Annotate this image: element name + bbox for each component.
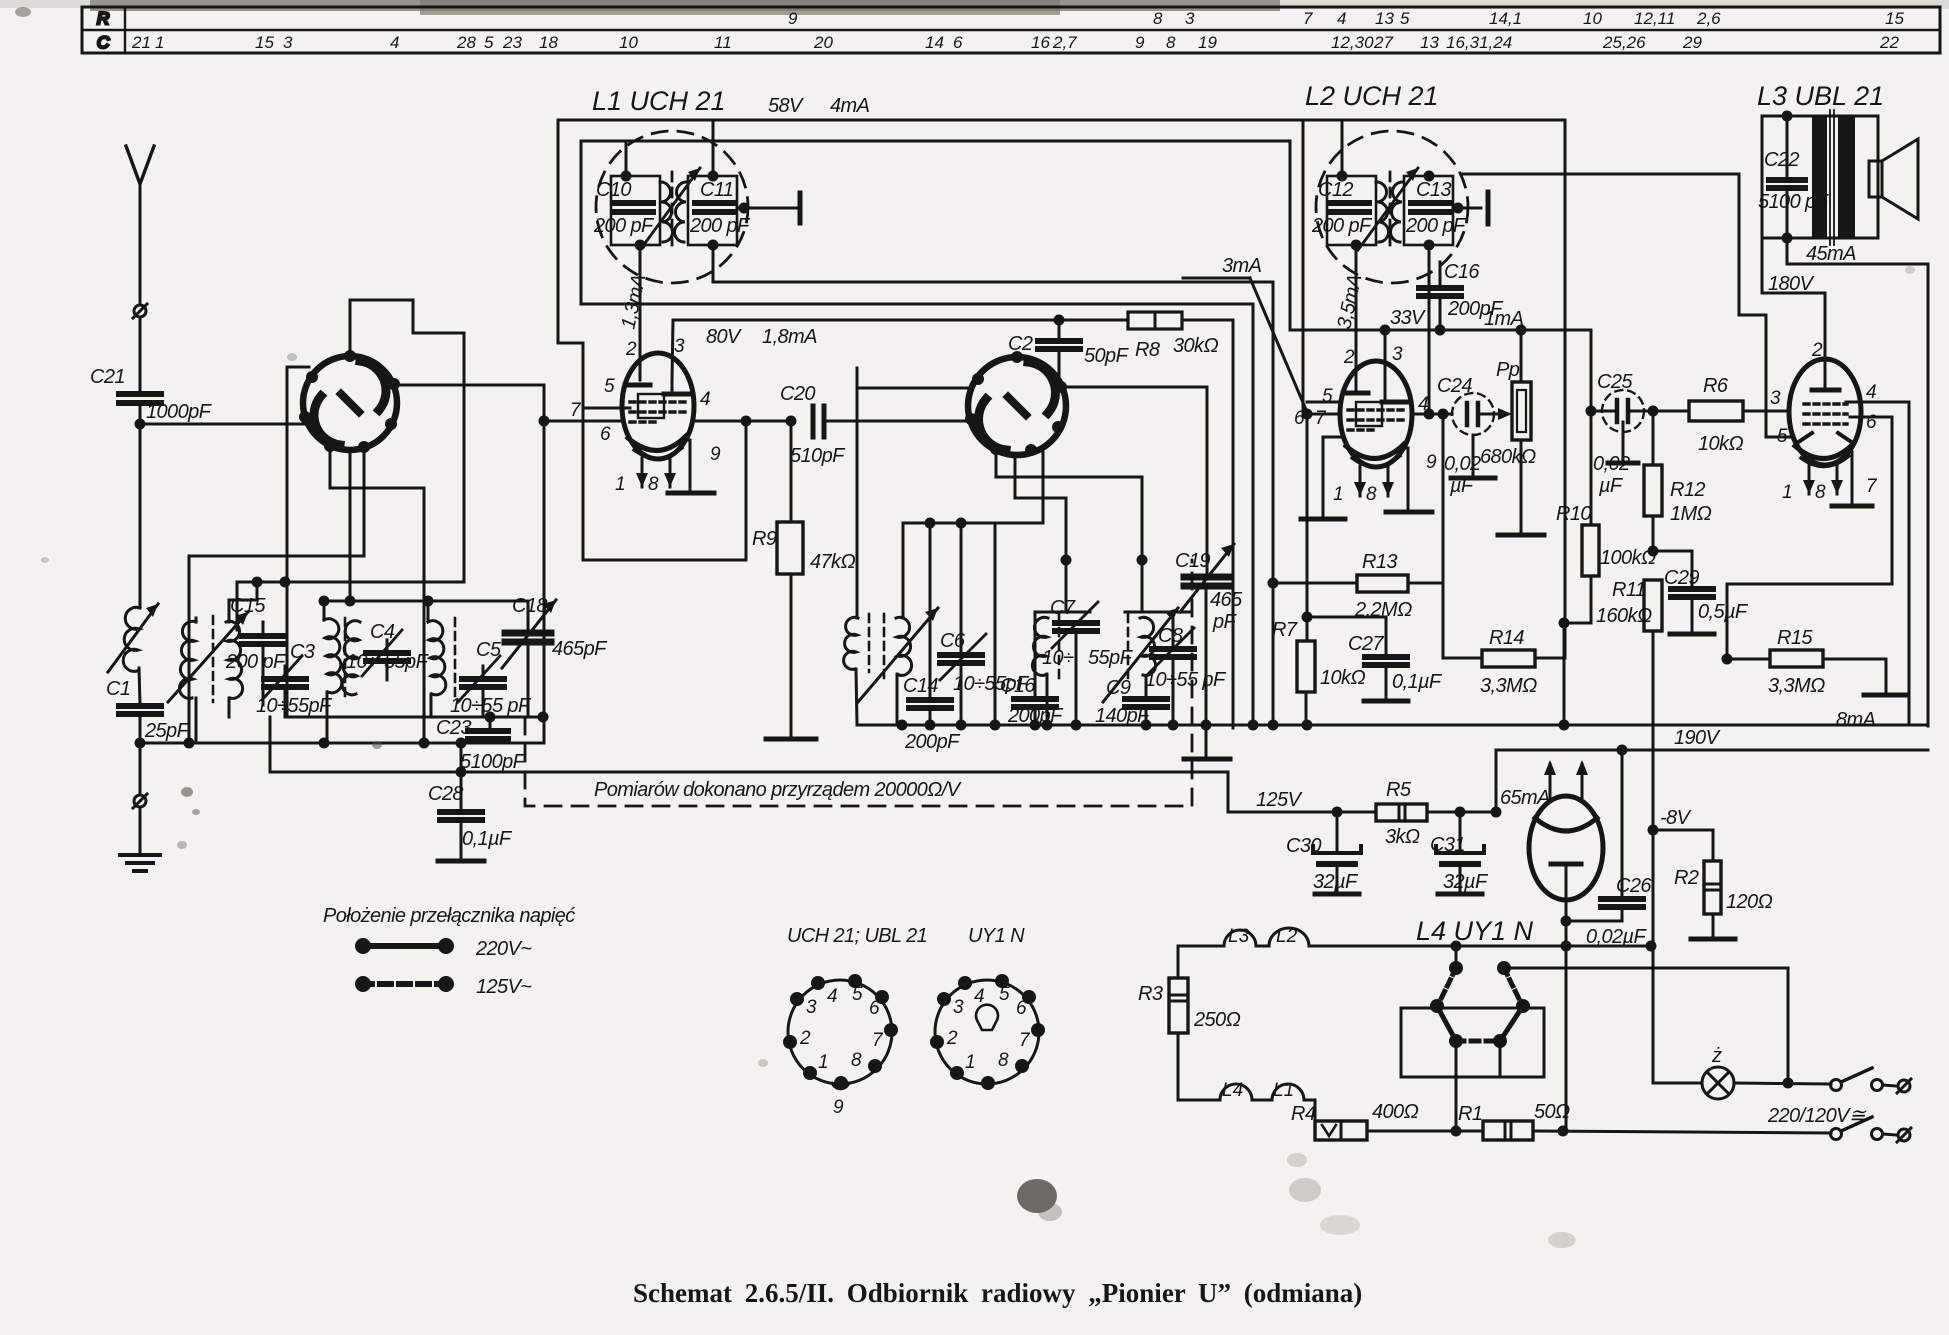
svg-text:10÷: 10÷ [346,651,378,673]
wire [1533,1131,1831,1133]
svg-text:C7: C7 [1050,597,1076,619]
wire [1075,631,1078,725]
potentiometer Pp [1512,382,1531,440]
node [1054,315,1065,326]
svg-text:20: 20 [813,33,833,52]
ground bar [668,491,714,496]
wire C28 drop [460,743,463,812]
pin8 arrow [1382,482,1394,496]
svg-text:C13: C13 [1416,179,1451,201]
wire [1734,1083,1831,1084]
svg-text:6: 6 [600,424,611,445]
wire [1385,665,1388,700]
svg-text:2: 2 [799,1028,811,1049]
antenna [126,146,154,305]
wire [1453,207,1481,210]
node [1561,916,1572,927]
node [1061,555,1072,566]
wire mixer1 top loop [350,300,464,582]
capacitor C5 [455,618,504,702]
svg-text:4: 4 [1337,9,1346,28]
wire screen line [1516,330,1591,525]
capacitor C11 [695,203,735,212]
node [708,240,719,251]
wire to C19 [1206,387,1209,575]
wire [1712,914,1715,938]
svg-text:R1: R1 [1458,1103,1482,1125]
wire mixer2 pin drop c [903,450,1043,523]
svg-text:14: 14 [925,33,944,52]
svg-text:10÷55 pF: 10÷55 pF [450,695,532,717]
svg-text:L1: L1 [1273,1080,1294,1101]
measurement note dashed box [525,560,1192,806]
circuit C8 C9 top node [1125,611,1190,614]
svg-text:5100pF: 5100pF [460,751,527,773]
svg-text:7: 7 [1866,476,1878,497]
svg-text:680kΩ: 680kΩ [1480,446,1536,468]
svg-text:4: 4 [827,986,838,1007]
svg-text:510pF: 510pF [790,445,846,467]
wire [427,601,430,620]
wire pin6 stub ground [1323,437,1340,518]
wire C13 bottom to grid [1428,245,1431,414]
node [1268,578,1279,589]
svg-text:10: 10 [619,33,638,52]
node [1783,1078,1794,1089]
svg-text:33V: 33V [1390,307,1426,329]
svg-text:10kΩ: 10kΩ [1320,667,1365,689]
wire pin9 ground [1404,448,1408,511]
svg-text:C20: C20 [780,383,815,405]
svg-text:120Ω: 120Ω [1726,891,1773,913]
wire [527,601,530,633]
svg-text:8mA: 8mA [1836,709,1876,731]
wire [1172,657,1175,725]
wire C27 branch [1307,617,1386,657]
capacitor C7 [1052,602,1098,648]
node [635,240,646,251]
wire pin8 lead [669,458,672,487]
svg-text:3: 3 [283,33,293,52]
wire osc top link [324,600,528,603]
svg-text:L1 UCH 21: L1 UCH 21 [592,86,726,116]
resistor R11 [1644,580,1662,946]
ground bar [766,737,816,742]
node [1201,720,1212,731]
wire pin4 detector out [1412,413,1452,416]
wire mixer1 output [394,385,544,421]
heater winding bus top [1178,928,1653,946]
svg-text:5: 5 [484,33,494,52]
wire pin1 lead [641,458,644,487]
capacitor C28 [440,812,482,820]
tube L2 UCH21 [1340,361,1412,467]
svg-text:7: 7 [1303,9,1313,28]
svg-text:0,1µF: 0,1µF [1392,671,1443,693]
svg-text:4: 4 [974,986,985,1007]
capacitor C12 [1329,203,1369,212]
svg-text:160kΩ: 160kΩ [1596,605,1652,627]
wire C12 top to rail [1341,120,1344,176]
wire [1172,612,1175,649]
wire pin5 stub b [1307,401,1340,404]
svg-text:R12: R12 [1670,479,1705,501]
svg-text:29: 29 [1682,33,1702,52]
IFT2 secondary winding [1390,182,1403,242]
wire [269,717,272,772]
svg-text:2: 2 [946,1028,958,1049]
svg-text:220V~: 220V~ [475,938,532,960]
capacitor C16 [1014,699,1056,707]
wire pin3 anode up [672,320,1233,728]
svg-text:3kΩ: 3kΩ [1385,826,1420,848]
svg-text:Pomiarów dokonano przyrządem: Pomiarów dokonano przyrządem 20000Ω/V [594,779,962,801]
node [1435,325,1446,336]
svg-text:R9: R9 [752,528,777,550]
svg-text:5100 pF: 5100 pF [1758,191,1830,213]
wire [824,420,966,423]
svg-text:C14: C14 [903,675,938,697]
node [1559,720,1570,731]
svg-text:1000pF: 1000pF [146,401,213,423]
wire C25 to R6 [1628,410,1689,413]
svg-text:R3: R3 [1138,983,1163,1005]
svg-text:5: 5 [1322,386,1333,407]
capacitor C2 [1038,320,1080,388]
svg-text:2: 2 [1811,340,1823,361]
socket pin numbers [946,984,1031,1073]
svg-text:11: 11 [714,33,732,52]
wire pin4 [1846,402,1909,725]
svg-text:32µF: 32µF [1443,871,1489,893]
node [1351,240,1362,251]
capacitor C6 [940,634,986,680]
wire [1034,612,1037,699]
wire pin9 to ground [686,440,690,492]
mixer tube section 1 [299,350,400,453]
svg-text:R2: R2 [1674,867,1699,889]
node [1558,1126,1569,1137]
wire [994,523,997,725]
resistor R14 [1443,650,1565,667]
wire [1691,597,1694,633]
svg-text:6: 6 [1016,998,1027,1019]
wire pin1 lead [1359,466,1362,496]
node [739,203,750,214]
svg-text:9: 9 [788,9,798,28]
svg-text:200pF: 200pF [904,731,961,753]
wire C6 drop [960,523,963,651]
pin8 arrow [1831,480,1843,494]
wire [262,644,265,705]
node [319,738,330,749]
node [456,738,467,749]
variable capacitor C18 [502,600,556,668]
node [1332,807,1343,818]
mains switch lower [1831,1117,1912,1142]
wire [386,661,389,680]
svg-text:1: 1 [155,33,164,52]
svg-text:16: 16 [1031,33,1050,52]
svg-text:32µF: 32µF [1313,871,1359,893]
wire measurement line [270,771,1228,774]
svg-text:125V: 125V [1256,789,1303,811]
rectifier tube L4 UY1N [1529,796,1603,900]
wire [236,582,239,630]
svg-text:L4 UY1 N: L4 UY1 N [1416,916,1534,946]
node [1586,406,1597,417]
svg-text:5: 5 [999,984,1010,1005]
wire [929,708,932,725]
svg-text:3,3MΩ: 3,3MΩ [1768,675,1825,697]
svg-text:30kΩ: 30kΩ [1173,335,1218,357]
svg-text:R11: R11 [1612,579,1645,601]
socket pin numbers [799,984,884,1118]
IFT2 tuning arrow [1358,168,1418,250]
wire [1442,414,1445,583]
svg-text:6: 6 [953,33,963,52]
wire [1183,277,1250,280]
wire [330,446,424,743]
resistor R12 [1644,411,1662,551]
wire [489,739,492,743]
node [1559,618,1570,629]
node [1648,406,1659,417]
IFT2 secondary box [1404,176,1453,245]
node [1268,720,1279,731]
selector top contacts [1430,961,1530,1048]
svg-text:7: 7 [1315,408,1327,429]
wire [856,669,857,725]
svg-text:16,31,24: 16,31,24 [1446,33,1512,52]
resistor R8 [1128,312,1182,329]
svg-text:2: 2 [1343,347,1355,368]
wire grid coupling [189,556,364,743]
190V supply line [1496,749,1928,752]
circuit C7 C16 top node [1035,611,1090,614]
wire [482,666,485,679]
svg-text:10kΩ: 10kΩ [1698,433,1743,455]
node [1042,720,1053,731]
svg-text:18: 18 [539,33,558,52]
resistor R2 [1704,861,1721,914]
svg-text:3: 3 [806,997,817,1018]
capacitor C3 [262,656,306,700]
resistor R5 [1376,804,1427,821]
wire [139,317,142,392]
wire [856,368,859,618]
svg-text:1: 1 [818,1052,829,1073]
node [135,419,146,430]
capacitor C21 [119,394,161,403]
svg-text:4: 4 [1866,382,1877,403]
svg-text:220/120V≅: 220/120V≅ [1767,1105,1867,1127]
svg-text:9: 9 [833,1097,844,1118]
ground bar [1832,504,1872,509]
ground bar [1301,517,1345,522]
svg-text:28: 28 [456,33,476,52]
svg-text:C9: C9 [1106,677,1131,699]
wire [1591,410,1617,413]
wire pin5 stub [1307,413,1340,416]
svg-text:6: 6 [1866,412,1877,433]
svg-text:1: 1 [1333,484,1344,505]
node [1071,720,1082,731]
ground bar [1184,757,1230,762]
capacitor C14 [909,700,951,708]
svg-text:C24: C24 [1437,375,1472,397]
svg-text:C12: C12 [1318,179,1353,201]
table R row values [788,9,1904,28]
svg-text:C10: C10 [596,179,631,201]
svg-text:0,5µF: 0,5µF [1698,601,1749,623]
ground bar [1364,699,1408,704]
svg-text:1mA: 1mA [1484,308,1524,330]
wire rail D [583,304,1253,728]
wire [430,694,433,717]
svg-text:4: 4 [700,389,711,410]
svg-text:200 pF: 200 pF [225,651,287,673]
ground bar [1498,533,1544,538]
wire [896,674,899,725]
node [990,720,1001,731]
svg-text:4mA: 4mA [830,95,870,117]
wire HT rail A [558,120,1303,414]
node [1141,720,1152,731]
svg-text:R5: R5 [1386,779,1412,801]
tube L3 UBL21 [1789,359,1861,467]
node [419,738,430,749]
wire IF to grid [1462,174,1793,437]
wire pin1 lead [1808,464,1811,494]
wire [482,687,485,717]
svg-text:1: 1 [965,1052,976,1073]
wire [960,663,963,725]
svg-text:C6: C6 [940,630,966,652]
svg-text:125V~: 125V~ [476,976,532,998]
node [1168,720,1179,731]
svg-text:400Ω: 400Ω [1372,1101,1419,1123]
svg-text:3: 3 [953,997,964,1018]
wire pin7 ground [1851,452,1854,505]
wire to tube pin7 [544,420,623,423]
svg-text:10÷55pF: 10÷55pF [256,695,333,717]
capacitor C4 [362,630,408,676]
node [741,416,752,427]
pin1 arrow [1803,480,1815,494]
ground bar [1691,937,1735,942]
wire [228,698,231,717]
svg-text:L3: L3 [1228,926,1250,947]
svg-text:4: 4 [390,33,399,52]
wire AVC line [287,716,543,719]
wire C24 to Pp [1478,413,1506,416]
tube L1 UCH21 [622,353,694,459]
node [485,712,496,723]
wire [237,581,464,584]
pin1 arrow [636,473,648,487]
node [1451,941,1462,952]
wire [543,421,546,743]
node [1646,941,1657,952]
svg-text:R14: R14 [1489,627,1524,649]
capacitor C29 [1671,589,1713,597]
node [1561,941,1572,952]
svg-text:2: 2 [625,339,637,360]
svg-text:C25: C25 [1597,371,1633,393]
svg-text:C3: C3 [290,641,315,663]
capacitor C22 [1769,116,1805,238]
IFT2 core [1389,172,1392,248]
node [184,738,195,749]
svg-text:10÷: 10÷ [1042,647,1074,669]
IF transformer 2 shield [1316,131,1468,283]
svg-text:Położenie przełącznika napię: Położenie przełącznika napięć [323,905,575,927]
wire anode drop 3,5mA [1355,245,1358,393]
wire [1442,583,1445,658]
svg-text:50Ω: 50Ω [1534,1101,1570,1123]
wire pin4 output [693,420,791,423]
node [1782,233,1793,244]
svg-text:R10: R10 [1556,503,1591,525]
svg-text:9: 9 [1426,452,1437,473]
node [1137,555,1148,566]
node [538,712,549,723]
wire [287,367,309,717]
node [1491,807,1502,818]
svg-text:10: 10 [1583,9,1602,28]
wire [386,640,389,653]
node [1302,720,1313,731]
wire mixer2 pin drop b [1015,455,1066,612]
node [956,720,967,731]
svg-text:200 pF: 200 pF [593,215,655,237]
node [1453,203,1464,214]
node [897,720,908,731]
RF coil [324,619,342,693]
capacitor C24 [1452,393,1494,435]
svg-text:7: 7 [1019,1030,1031,1051]
node [423,596,434,607]
svg-text:5: 5 [604,376,615,397]
IF transformer 1 shield [596,131,748,283]
svg-text:5: 5 [1400,9,1410,28]
loudspeaker [1869,139,1918,219]
pin1 arrow [1354,482,1366,496]
IF coil 3 [1103,608,1178,702]
IFT1 secondary winding [674,182,687,242]
svg-text:UY1 N: UY1 N [968,925,1025,947]
wire C29 branch [1653,551,1692,589]
capacitor C26 [1601,750,1643,921]
svg-text:C28: C28 [428,783,463,805]
IFT2 primary winding [1376,182,1389,242]
node [708,171,719,182]
coupling coil [844,614,869,672]
svg-text:C21: C21 [90,366,125,388]
svg-text:10÷55 pF: 10÷55 pF [1145,669,1227,691]
wire selector left top [1455,946,1458,968]
node [1302,612,1313,623]
wire secondary return [713,245,1273,728]
svg-text:1MΩ: 1MΩ [1670,503,1712,525]
mixer tube section 2 [965,351,1067,456]
ground bar [1451,476,1495,481]
wire [1367,1130,1483,1133]
node [1424,171,1435,182]
capacitor C13 [1411,203,1451,212]
svg-text:180V: 180V [1768,273,1815,295]
